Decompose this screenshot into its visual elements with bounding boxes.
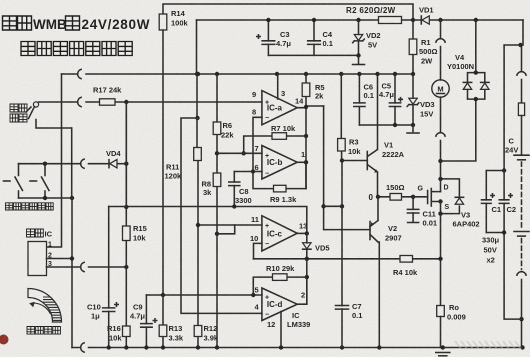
capacitor C4 0.1 — [308, 20, 333, 55]
node x198 y118 branch to IC-d pin4 — [195, 116, 199, 120]
node pin5 R10 corner — [251, 293, 255, 297]
resistor R17 24k row to IC-a pin9 — [39, 86, 262, 107]
node C1C2 bottom to battery column — [519, 317, 523, 321]
motor M — [432, 80, 449, 97]
capacitor C3 4.7u — [257, 20, 292, 55]
dashed battery middle — [521, 162, 523, 229]
node IC-b out — [304, 160, 308, 164]
pin 12 ground wire — [267, 312, 281, 348]
mosfet V3 6AP402 — [413, 185, 480, 229]
capacitor C2 330u — [499, 171, 516, 233]
wire VD5 bottom row y=258.8 — [254, 258, 343, 260]
resistor R7 10k feedback — [244, 124, 306, 153]
resistor R12 3.9k — [194, 324, 219, 343]
node pin5 R13/R14 column — [161, 293, 165, 297]
capacitor C9 4.7u — [130, 295, 157, 348]
diode VD5 — [303, 233, 330, 258]
node C8 bottom on bus — [232, 204, 236, 208]
wire 15V rail y=74 — [62, 73, 414, 75]
ground symbol at bottom — [436, 353, 450, 356]
wire column x=198 from 5V rail corner — [197, 20, 199, 348]
wire V4 bottom to motor column — [441, 99, 476, 161]
ground below VD2 — [353, 55, 365, 64]
node R3 bottom V1 base — [340, 158, 344, 162]
wire battery column right edge — [522, 20, 524, 103]
node hall pin2 — [70, 256, 74, 260]
node emitter junction 0 — [369, 193, 381, 202]
zener diode VD2 5V — [353, 20, 381, 55]
node gate wire / C11 — [411, 195, 415, 199]
title line 1: Xin Xu WMB model 24V/280W — [3, 16, 151, 32]
wire branch to pin4 long column x=181 — [181, 118, 262, 313]
capacitor C10 1u — [87, 207, 118, 348]
node pin11 on x198 column — [196, 223, 200, 227]
node C1C2 tap on battery column — [518, 43, 522, 47]
wire top loop from R14 to VD1 node — [163, 4, 413, 20]
node R17 right — [124, 100, 128, 104]
title line 2: brushed motor controller — [21, 42, 132, 56]
wire C3 C4 bottom to VD2 bottom — [268, 54, 358, 56]
op-amp IC-c — [262, 216, 297, 251]
ground below VD3 — [407, 125, 419, 133]
watermark band bottom right — [455, 341, 521, 349]
hall IC box — [27, 229, 53, 276]
wire motor bottom column with connector — [440, 97, 442, 179]
pin 6 wire — [234, 163, 262, 172]
diode VD4 — [106, 149, 126, 168]
wire main 5V top rail y=20 — [197, 19, 524, 21]
node R10 right — [305, 275, 309, 279]
battery cell plates top — [514, 155, 529, 160]
pin 2 output wire — [297, 277, 307, 304]
node caps top — [502, 168, 506, 172]
resistor R16 10k — [107, 267, 130, 348]
wire tie to R3/V1 base column — [324, 205, 342, 207]
dashed battery lower / connector — [517, 239, 526, 348]
wire source column to R4/Ro — [440, 202, 442, 306]
resistor R3 10k — [338, 74, 362, 161]
wire R14 column down to pin5 row — [162, 30, 164, 295]
wire jog x217 to pin11 row — [217, 225, 235, 234]
node R1 bottom 15V rail — [411, 72, 415, 76]
speed-limit switch (xiansu/jinxing) — [29, 102, 72, 128]
node drain — [438, 177, 442, 181]
op-amp IC-a LM339 section — [262, 91, 297, 125]
node x323.6 y206.3 — [321, 204, 325, 208]
pin 10 wire — [250, 234, 262, 259]
resistor R14 — [159, 9, 188, 30]
label zuo you brake buttons — [6, 203, 54, 210]
zener diode VD3 15V — [407, 74, 434, 125]
capacitor C1 330u — [482, 171, 505, 233]
resistor Ro 0.009 — [437, 303, 466, 348]
capacitor C11 0.01 — [407, 197, 437, 228]
wire V1 base column down — [341, 161, 343, 306]
pin 3 power wire — [278, 74, 285, 99]
label C 24V — [505, 137, 518, 155]
node IC-a out on column — [304, 105, 308, 109]
pin 5 wire — [146, 286, 262, 296]
resistor R4 10k — [342, 256, 441, 278]
node R4 right on source column — [438, 257, 442, 261]
node pin6 junction — [251, 169, 255, 173]
wire column x=61.5 rail to hall pin1 — [47, 74, 62, 247]
brake switch left — [4, 164, 23, 198]
pin 14 output wire — [295, 97, 324, 108]
wire ground bus C6 C5 VD3 y=125 — [359, 124, 413, 126]
battery cell plates bottom — [514, 232, 529, 237]
wire column x=72 down to bottom rail — [71, 128, 73, 348]
brake switch right — [30, 164, 49, 198]
node VD4 to R15 column — [124, 162, 128, 166]
pin 11 wire — [198, 215, 262, 225]
pin 1 output wire — [297, 150, 306, 162]
resistor R15 10k — [123, 102, 147, 267]
op-amp IC-d — [262, 288, 297, 321]
node R6/R8 junction pin7 — [215, 151, 219, 155]
wire caps bottom join — [486, 233, 521, 320]
hall pin 2 wire — [47, 253, 73, 260]
resistor R6 22k — [213, 74, 234, 153]
node pin7 row left — [242, 151, 246, 155]
label xiansu jinxing — [10, 104, 31, 122]
transistor V2 2907 — [370, 197, 402, 348]
pin 13 output wire — [297, 222, 307, 234]
capacitor C8 3300 — [229, 172, 252, 207]
connector on rail — [78, 69, 81, 78]
node x198 on 15V rail — [195, 72, 199, 76]
resistor R9 1.3k feedback — [253, 162, 306, 204]
resistor R11 120k — [165, 148, 202, 181]
wire brake bottom row y=198 — [19, 197, 73, 199]
node motor/V4 tap — [438, 159, 442, 163]
transistor V1 2222A — [342, 74, 405, 197]
diode VD1 — [419, 6, 434, 25]
red dot margin mark — [0, 335, 9, 345]
node VD5 bottom / R10 column — [305, 257, 309, 261]
wire motor top column with connector — [440, 20, 442, 80]
label 330u 50V x2 — [482, 236, 500, 265]
wire C1 C2 tap from y45 — [504, 45, 520, 171]
pin 8 wire IC-a inverting — [252, 108, 262, 172]
node source — [438, 199, 442, 203]
dual diode V4 Y0100N — [447, 20, 489, 101]
wire drain D lead up — [440, 179, 442, 192]
node IC-c out — [305, 231, 309, 235]
body diode of V3 — [441, 179, 464, 214]
resistor R8 3k — [202, 153, 221, 347]
node x217 y233.8 jog to pin11 row — [215, 232, 219, 236]
resistor R10 29k — [253, 259, 306, 304]
capacitor C6 0.1 — [354, 74, 374, 125]
wire brake-lever top row y=163.7 — [19, 163, 110, 165]
capacitor C7 0.1 — [336, 302, 363, 348]
wire IC-a out column x=323.6 down to V2 base — [324, 106, 370, 230]
node pin3 R15 bottom — [124, 265, 128, 269]
resistor R13 3.3k — [159, 295, 184, 348]
resistor R1 500ohm 2W — [409, 20, 437, 74]
node x126 on bus — [124, 205, 128, 209]
op-amp IC-b — [262, 146, 297, 180]
node R2 right / R1 top — [411, 18, 415, 22]
pin 7 wire — [217, 144, 262, 153]
wire long bus y=206.5 from C10 to IC-c out — [109, 207, 307, 234]
hall throttle arc (huoer tiaosu) — [28, 289, 63, 323]
node VD1 anode / motor top — [438, 18, 442, 22]
resistor 150 ohm gate — [378, 183, 413, 200]
fuse — [518, 103, 524, 116]
wire bottom ground rail y=347.5 — [72, 347, 523, 349]
label huoer tiaosu — [27, 327, 60, 335]
resistor R5 2k — [302, 74, 324, 189]
label IC LM339 — [287, 311, 310, 329]
node VD3 bottom — [411, 123, 415, 127]
resistor R2 620ohm/2W — [346, 6, 402, 24]
hall pin 3 wire with connector — [47, 261, 127, 272]
node V4 top rail — [474, 18, 478, 22]
node R7 right — [304, 134, 308, 138]
capacitor C5 4.7u — [379, 74, 402, 125]
